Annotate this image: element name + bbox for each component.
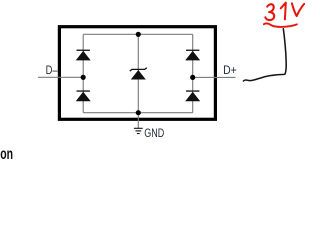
svg-text:D–: D– xyxy=(46,64,58,77)
svg-text:on: on xyxy=(0,146,13,161)
svg-text:GND: GND xyxy=(144,127,164,140)
svg-text:D+: D+ xyxy=(223,64,237,77)
